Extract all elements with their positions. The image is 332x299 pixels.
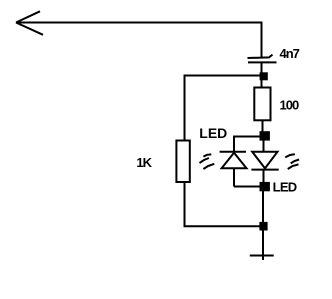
wire down to LED D1 top xyxy=(233,136,235,153)
wire J2 left horizontal to LED D1 xyxy=(234,136,260,138)
ground xyxy=(250,255,274,257)
wire capacitor to node xyxy=(261,62,263,74)
resistor R2 100 xyxy=(254,88,270,121)
LED D1 (left, pointing up) xyxy=(220,152,247,169)
wire middle horizontal xyxy=(185,75,261,77)
svg-text:4n7: 4n7 xyxy=(280,46,300,61)
wire LED D1 bottom horizontal to node J3 xyxy=(234,186,261,188)
LED D2 light rays xyxy=(285,154,299,169)
antenna arrow head xyxy=(16,11,43,35)
wire left vertical upper xyxy=(184,75,186,141)
wire left vertical lower xyxy=(184,183,186,228)
svg-text:1K: 1K xyxy=(136,155,152,170)
LED D1 light rays xyxy=(200,154,215,169)
node junction J2 xyxy=(260,131,270,140)
node junction J3 xyxy=(260,182,270,191)
svg-text:LED: LED xyxy=(199,125,227,141)
LED D2 (right, pointing down) xyxy=(251,152,278,170)
wire node J4 to ground xyxy=(262,230,264,260)
wire LED D2 to node J3 xyxy=(263,169,265,183)
node junction J1 xyxy=(260,72,268,80)
capacitor C1 4n7 xyxy=(248,55,277,63)
resistor R1 1K xyxy=(176,141,189,183)
wire node J2 to LED D2 xyxy=(263,140,265,153)
svg-text:100: 100 xyxy=(280,98,299,113)
wire node J1 to resistor 100 xyxy=(261,80,263,87)
wire top horizontal xyxy=(16,22,263,24)
wire right vertical to capacitor xyxy=(261,22,263,58)
node junction J4 xyxy=(259,222,267,231)
wire node J3 to node J4 xyxy=(262,190,264,223)
wire bottom horizontal xyxy=(184,225,262,227)
svg-text:LED: LED xyxy=(273,180,297,195)
wire LED D1 bottom vertical xyxy=(233,168,235,187)
wire resistor 100 to node J2 xyxy=(262,121,264,133)
